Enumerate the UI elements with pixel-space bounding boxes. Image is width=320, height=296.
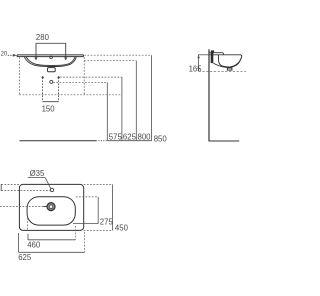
tap hole (plan) — [50, 188, 53, 191]
arrow 165 top — [197, 55, 199, 59]
svg-text:850: 850 — [154, 135, 168, 144]
svg-text:800: 800 — [138, 133, 152, 142]
waste trap (front) — [48, 68, 56, 72]
height vertical 575 — [106, 82, 108, 140]
bowl (plan) — [27, 197, 75, 225]
wall bracket tab edge — [0, 184, 2, 191]
fixing dot right — [58, 76, 60, 78]
dim 460 line — [28, 239, 75, 241]
svg-text:20: 20 — [1, 51, 8, 57]
svg-text:460: 460 — [27, 241, 41, 250]
outer shell from ledge to drain — [213, 63, 227, 67]
bowl outer curve (front) — [24, 57, 76, 67]
waste outlet circle — [50, 80, 53, 83]
arrow 165 bottom — [197, 68, 199, 72]
dim 625 right extension — [84, 232, 86, 252]
dim 165 top extension — [198, 54, 209, 56]
drain leader tip — [44, 206, 48, 208]
fixing dot left — [42, 76, 44, 78]
svg-text:165: 165 — [189, 65, 203, 74]
height vertical 850 — [151, 55, 153, 141]
rim top line (side) — [209, 55, 242, 59]
drain (plan) — [47, 203, 55, 211]
basin rim (front) — [17, 55, 84, 57]
drain flange (side) — [227, 67, 232, 70]
centerline dashed — [0, 205, 44, 207]
pipe level dashed — [199, 70, 246, 72]
bottom projection dashed — [19, 94, 122, 96]
svg-text:625: 625 — [123, 133, 137, 142]
dim 275 bracket vertical — [97, 197, 99, 224]
floor line — [20, 140, 97, 142]
dim 275 top extension — [76, 196, 98, 198]
dim 165 bracket — [198, 55, 200, 72]
svg-text:150: 150 — [42, 105, 56, 114]
wall line — [208, 49, 210, 141]
Ø35 leader — [45, 178, 51, 189]
bowl inner wall (side) — [218, 55, 240, 67]
dim 460 left extension — [27, 234, 29, 240]
back ledge section (black) — [211, 53, 214, 63]
svg-text:280: 280 — [36, 33, 50, 42]
svg-text:450: 450 — [115, 223, 129, 232]
height vertical 800 — [135, 61, 137, 141]
dim 450 top extension — [84, 183, 113, 185]
left projection dashed — [18, 57, 20, 95]
dim 450 bottom extension — [84, 229, 113, 231]
arrow 280 left — [34, 57, 37, 60]
dim bracket 280 — [36, 43, 66, 54]
side floor line — [209, 140, 240, 142]
dim leader 20 — [8, 54, 15, 56]
dim 625 left extension — [18, 233, 20, 252]
arrow 280 right — [64, 57, 67, 60]
drain flange dark top — [228, 68, 232, 69]
deck line — [209, 53, 224, 55]
Ø35 underline — [28, 177, 46, 179]
dim 625 line — [19, 251, 85, 253]
outer underside curve (side) — [229, 59, 241, 67]
height line 575 dashed horizontal — [53, 81, 107, 83]
height line 850 dashed horizontal — [84, 54, 151, 56]
tap block — [211, 50, 214, 52]
height vertical 625 — [121, 77, 123, 141]
basin outline (plan) — [19, 184, 83, 230]
svg-text:Ø35: Ø35 — [30, 169, 45, 178]
dim bracket 150 — [43, 77, 59, 101]
bowl left projection dashed — [27, 218, 29, 230]
svg-text:625: 625 — [18, 253, 32, 262]
fixing stubs through rim — [36, 43, 66, 58]
drain center square — [50, 205, 53, 208]
right projection dashed — [83, 57, 85, 95]
height line 800 dashed horizontal — [84, 60, 136, 62]
bowl inner curve (front) — [26, 57, 75, 66]
dim 450 bracket vertical — [112, 184, 114, 230]
svg-text:275: 275 — [100, 217, 114, 226]
svg-text:575: 575 — [109, 133, 123, 142]
dim 275 bottom extension — [73, 223, 98, 225]
tap hole (front) — [50, 56, 53, 58]
height line 625 dashed horizontal — [60, 76, 122, 78]
tab dashed link bottom — [1, 190, 50, 192]
dim 460 right extension — [74, 226, 76, 240]
tab dashed link top — [1, 183, 19, 185]
